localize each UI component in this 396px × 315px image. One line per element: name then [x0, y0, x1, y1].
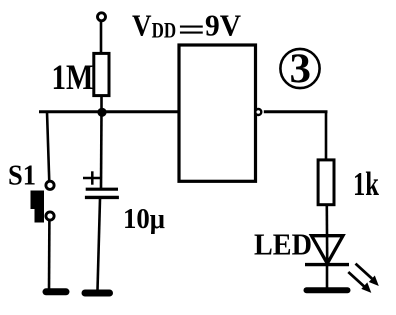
svg-text:1k: 1k: [353, 166, 379, 203]
resistor R2 1k: [318, 160, 334, 205]
svg-text:1M: 1M: [52, 57, 94, 97]
wire horizontal node A: [39, 110, 179, 113]
wire node A down to capacitor C1: [100, 112, 103, 188]
wire left branch down to switch: [47, 112, 49, 183]
wire switch to ground: [48, 219, 51, 290]
ground (right): [307, 287, 348, 293]
capacitor C1 top plate: [86, 188, 118, 191]
wire output down to resistor R2: [325, 112, 328, 159]
resistor R1 1M: [94, 53, 109, 95]
gate block U1: [179, 45, 256, 181]
svg-text:9V: 9V: [205, 8, 242, 43]
svg-text:LED: LED: [254, 227, 312, 262]
LED light arrow 1: [356, 264, 379, 286]
capacitor C1 plus sign: [83, 177, 101, 180]
LED D1 cathode bar: [305, 263, 349, 266]
switch S1 top contact: [46, 181, 54, 189]
svg-text:V: V: [132, 8, 152, 43]
svg-text:S1: S1: [8, 160, 36, 192]
terminal (VDD input): [98, 13, 106, 21]
svg-text:10μ: 10μ: [123, 204, 165, 235]
switch S1 bottom contact: [46, 212, 54, 220]
node A junction dot: [97, 108, 106, 117]
LED D1 triangle: [312, 236, 344, 264]
capacitor C1 bottom plate: [85, 196, 119, 199]
svg-text:3: 3: [290, 47, 312, 93]
wire resistor to node A: [100, 96, 103, 113]
wire resistor R2 to LED: [325, 205, 328, 264]
ground (middle): [85, 290, 110, 297]
wire output horizontal: [264, 110, 328, 113]
wire LED to ground: [326, 266, 329, 290]
wire terminal to resistor R1: [100, 21, 103, 53]
svg-text:=: =: [178, 12, 206, 47]
svg-text:DD: DD: [152, 18, 177, 43]
output bubble of U1: [255, 109, 261, 115]
switch S1 actuator bar: [31, 191, 45, 223]
LED light arrow 2: [348, 272, 371, 293]
ground (left): [46, 288, 66, 295]
wire capacitor to ground: [98, 199, 101, 290]
circled number 3: [280, 49, 319, 88]
